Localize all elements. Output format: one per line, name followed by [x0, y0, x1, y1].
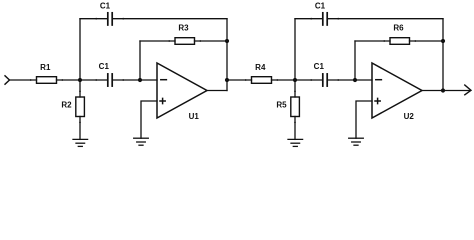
output arrow [465, 85, 471, 95]
wire top rail left [80, 18, 107, 20]
ground at U2 input [349, 138, 364, 145]
wire U1 noninverting input [141, 101, 157, 138]
wire top rail left stage2 [295, 18, 322, 20]
wire U2 output [422, 90, 470, 92]
svg-text:R3: R3 [178, 24, 189, 33]
node stage1 output junction dot [225, 78, 229, 82]
capacitor C1 top stage1 [95, 13, 124, 25]
svg-text:R1: R1 [40, 63, 51, 72]
svg-text:C1: C1 [100, 1, 111, 10]
wire input to R1 [10, 79, 37, 81]
svg-text:R6: R6 [393, 24, 404, 33]
resistor R3 [175, 38, 195, 45]
ground below R5 [288, 139, 303, 146]
op-amp U1 [157, 63, 207, 118]
wire top rail right stage2 [328, 18, 443, 20]
wire R3 rail left [140, 40, 175, 42]
node feedback junction dot stage2 [353, 78, 357, 82]
wire R6 rail right [410, 40, 444, 42]
wire U1 output [207, 90, 227, 92]
node R6 output junction dot [441, 39, 445, 43]
resistor R5 [291, 97, 300, 117]
wire vertical node A rail [79, 19, 81, 97]
svg-text:U1: U1 [189, 112, 200, 121]
wire C1 to U2 inverting input [328, 79, 372, 81]
resistor R6 [390, 38, 410, 45]
svg-text:R2: R2 [61, 101, 72, 110]
wire R3 feedback vertical [139, 41, 141, 80]
wire R4 to node B [272, 79, 296, 81]
wire R3 rail right [195, 40, 228, 42]
node A junction dot [78, 78, 82, 82]
svg-text:R5: R5 [276, 101, 287, 110]
wire node B to C1 series stage2 [295, 79, 322, 81]
node B junction dot [293, 78, 297, 82]
wire stage1 output vertical [226, 19, 228, 91]
node R3 output junction dot [225, 39, 229, 43]
svg-text:C1: C1 [315, 1, 326, 10]
wire vertical node B rail [294, 19, 296, 97]
wire R5 to ground [294, 117, 296, 140]
resistor R1 [37, 77, 57, 84]
input port [5, 76, 10, 84]
capacitor C1 series stage1 [95, 74, 124, 86]
wire top rail right [113, 18, 227, 20]
resistor R2 [76, 97, 85, 117]
ground below R2 [73, 139, 88, 146]
wire node A to C1 series [80, 79, 107, 81]
wire R6 rail left [355, 40, 390, 42]
ground at U1 input [134, 138, 149, 145]
capacitor C1 series stage2 [310, 74, 339, 86]
node feedback junction dot stage1 [138, 78, 142, 82]
wire C1 to U1 inverting input [113, 79, 157, 81]
svg-text:C1: C1 [99, 62, 110, 71]
op-amp U2 [372, 63, 422, 118]
svg-text:U2: U2 [404, 112, 415, 121]
capacitor C1 top stage2 [310, 13, 339, 25]
wire stage2 output vertical [442, 19, 444, 91]
wire R1 to node A [57, 79, 81, 81]
wire stage1 to R4 [227, 79, 252, 81]
wire U2 noninverting input [356, 101, 372, 138]
svg-text:R4: R4 [255, 63, 266, 72]
wire R6 feedback vertical [354, 41, 356, 80]
wire R2 to ground [79, 117, 81, 140]
node stage2 output junction dot [441, 88, 445, 92]
resistor R4 [252, 77, 272, 84]
svg-text:C1: C1 [314, 62, 325, 71]
